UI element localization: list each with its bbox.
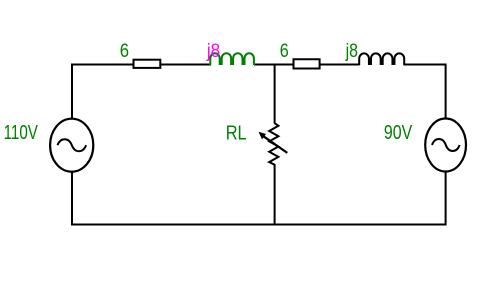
variable resistor RL arrow shaft [264,136,288,153]
svg-text:j8: j8 [206,41,220,62]
AC source 90V (circle) [425,119,466,172]
wire: top middle horizontal [254,64,360,66]
wire: middle vertical upper (junction to RL) [274,64,276,124]
inductor j8 (right branch) [359,53,404,65]
inductor j8 (left branch) [210,53,254,65]
variable resistor RL arrow head [259,132,267,140]
resistor 6 (right branch) [294,59,320,68]
wire: top left horizontal (node A run) [71,64,211,66]
svg-text:j8: j8 [345,41,358,62]
wire: right vertical upper [445,64,447,120]
svg-text:110V: 110V [4,121,39,144]
wire: top right horizontal [404,64,447,66]
wire: middle vertical lower (RL to bottom) [274,164,276,226]
wire: left vertical lower [71,172,73,226]
AC source 110V sine symbol [58,139,87,151]
wire: right vertical lower [445,172,447,226]
wire: left vertical upper [71,64,73,120]
resistor 6 (left branch) [134,60,161,68]
wire: bottom horizontal [71,224,447,226]
svg-text:RL: RL [226,121,247,144]
AC source 90V sine symbol [432,139,460,151]
svg-text:6: 6 [280,41,289,62]
variable resistor RL (zigzag) [269,123,278,165]
svg-text:6: 6 [120,41,129,62]
svg-text:90V: 90V [384,121,413,144]
AC source 110V (circle) [50,119,93,172]
